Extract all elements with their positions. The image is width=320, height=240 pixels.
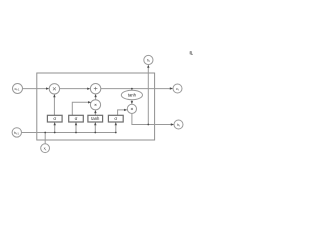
operator plus cell-state sum	[90, 84, 100, 94]
arrowhead into tanh box bottom	[94, 122, 96, 125]
gate box sigma2 (input)	[69, 115, 84, 122]
wire h-line branch up to sigma1	[54, 124, 56, 132]
wire h-line branch up to tanh box	[94, 124, 96, 132]
gate box tanh (candidate)	[88, 115, 103, 122]
arrowhead into mult3 top	[131, 101, 133, 104]
svg-text:σ: σ	[75, 116, 78, 121]
arrowhead into sigma1 bottom	[54, 122, 56, 125]
node h_(t-1) input circle	[12, 128, 21, 137]
cell body rectangle	[37, 73, 155, 140]
wire mult3 down and right to h_t	[132, 114, 172, 125]
operator mult2 input-gate product	[90, 100, 100, 110]
junction dot x_t joins h-line	[44, 132, 46, 134]
wire sigma1 up to mult1	[53, 96, 55, 115]
node c_t output circle	[173, 84, 182, 93]
node c_(t-1) input circle	[13, 84, 23, 94]
wire x_t up to h-line	[44, 133, 46, 144]
arrowhead into sigma3 bottom	[115, 122, 117, 125]
arrowhead into mult3 left	[124, 109, 127, 111]
junction dot h-line tanh	[94, 132, 96, 134]
gate box sigma3 (output)	[108, 115, 123, 122]
wire sigma3 elbow to mult3	[118, 110, 125, 115]
junction dot h-line sigma3	[115, 132, 117, 134]
svg-text:σ: σ	[114, 116, 117, 121]
junction dot h-line sigma1	[54, 132, 56, 134]
wire sigma2 elbow to mult2	[72, 102, 88, 115]
label mult1 times	[53, 87, 56, 90]
arrowhead into h_t top	[147, 65, 149, 68]
tanh ellipse	[121, 90, 142, 99]
arrowhead into mult1 left	[46, 87, 49, 89]
arrowhead into mult2 left	[88, 101, 91, 103]
arrowhead into sigma2 bottom	[75, 122, 77, 125]
node x_t input circle	[41, 144, 50, 153]
arrowhead into h_t right	[171, 123, 174, 125]
wire tanh box up to mult2	[94, 112, 96, 115]
node h_t top output circle	[144, 55, 153, 64]
label mult2 times	[95, 104, 97, 106]
wire c-line c_(t-1) to mult1	[23, 88, 48, 90]
operator mult3 output-gate product	[127, 104, 136, 113]
junction dot h-out branch	[147, 124, 149, 126]
arrowhead into plus bottom	[94, 94, 96, 97]
arrowhead into c_t	[170, 87, 173, 89]
wire h-input line	[22, 132, 116, 134]
arrowhead into plus left	[87, 88, 90, 90]
node h_t right output circle	[174, 120, 183, 129]
svg-text:tanh: tanh	[128, 92, 137, 97]
wire mult1 to plus	[60, 88, 89, 90]
junction dot c-line to tanh ellipse	[131, 88, 133, 90]
junction dot h-line sigma2	[75, 132, 77, 134]
svg-text:σ: σ	[53, 116, 56, 121]
arrowhead into mult2 bottom	[94, 110, 96, 113]
wire branch up to h_t top	[147, 67, 149, 124]
wire c-line down to tanh ellipse	[131, 89, 133, 91]
operator mult1 forget-gate product	[49, 84, 59, 94]
stray small mark top right	[190, 51, 192, 55]
wire mult2 up to plus	[95, 96, 97, 99]
wire tanh ellipse down to mult3	[131, 100, 133, 102]
label plus	[94, 87, 98, 91]
svg-text:tanh: tanh	[91, 116, 100, 121]
wire h-line branch up to sigma3	[115, 124, 117, 132]
label mult3 times	[131, 108, 133, 110]
arrowhead into mult1 bottom	[53, 94, 55, 97]
wire h-line branch up to sigma2	[75, 124, 77, 132]
wire plus to c_t	[101, 88, 172, 90]
gate box sigma1 (forget)	[47, 115, 62, 122]
